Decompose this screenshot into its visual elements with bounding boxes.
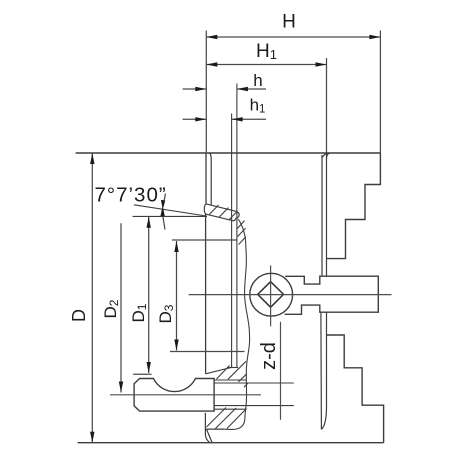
pinion crosshair centerlines [189, 265, 392, 326]
svg-text:z-d: z-d [258, 342, 280, 370]
screw axis centerline [110, 394, 261, 396]
dimension D1 [148, 217, 150, 373]
bottom face line of chuck body [78, 442, 384, 444]
svg-text:7°7’30”: 7°7’30” [95, 184, 167, 207]
taper line 7deg [134, 205, 206, 216]
dimension D2 [120, 223, 122, 392]
hub bottom outline below cylinder [205, 413, 224, 443]
hatch patch below cylinder [207, 408, 247, 430]
screw shank thread lines [214, 380, 294, 409]
left outer wall line [205, 153, 207, 204]
dimension D3 [176, 241, 178, 351]
slot vertical line h-extension [236, 84, 238, 368]
hatch patch right of slot (upper) [237, 221, 246, 245]
band hatch strokes [209, 205, 237, 220]
slot vertical line h1-extension [231, 114, 233, 368]
svg-text:H: H [282, 12, 296, 33]
left wall lower segment [205, 214, 207, 374]
right lower jaw stepped profile [327, 335, 384, 443]
pinion boss outline [285, 276, 379, 314]
dimension H1 [206, 58, 326, 153]
pinion circle (chuck key socket) [250, 273, 293, 316]
screw cylinder (bottom left) [134, 379, 214, 412]
top face line of chuck body (outer diameter surface) [76, 152, 381, 154]
right upper jaw stepped profile [327, 153, 381, 259]
bolt hole centerline z-d [280, 322, 282, 420]
horizontal reference line [133, 215, 208, 217]
svg-text:D: D [69, 309, 89, 322]
slot bottom diagonal boundary [206, 368, 232, 374]
top-right inner corner arc [327, 153, 331, 159]
dimension D [91, 153, 93, 443]
svg-text:h: h [253, 71, 262, 90]
hatch patch above cylinder [217, 361, 249, 387]
dimension H [206, 31, 380, 154]
dimension h1 [183, 118, 266, 120]
section break curve (wavy) [225, 219, 250, 429]
jaw slot sliver lower converging [321, 312, 327, 429]
slot bottom closing line [227, 367, 238, 369]
left inner wall line with corner arc [209, 153, 211, 205]
jaw slot sliver upper (guide slot pair) [322, 153, 327, 276]
square socket diamond [258, 282, 284, 308]
dimension h [183, 88, 266, 90]
rim section band (hatched) [204, 204, 239, 221]
